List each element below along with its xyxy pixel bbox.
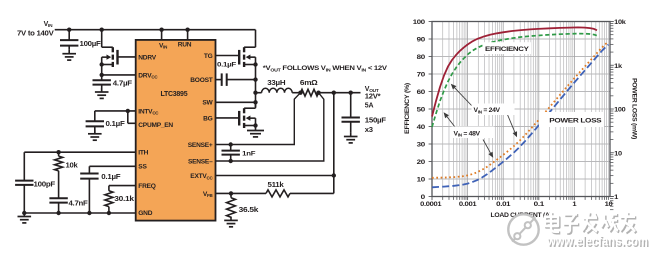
svg-text:100: 100: [614, 107, 626, 114]
resistor R1 10k: [55, 152, 78, 198]
ground under R5: [224, 217, 238, 227]
junction GND rail / ground: [22, 211, 26, 215]
svg-text:EFFICIENCY (%): EFFICIENCY (%): [404, 83, 411, 134]
svg-text:0.1µF: 0.1µF: [101, 174, 121, 181]
ground on GND rail: [18, 213, 32, 223]
chart label EFFICIENCY: [483, 42, 532, 54]
capacitor C7 0.1uF boost: [216, 62, 256, 86]
svg-text:6mΩ: 6mΩ: [300, 80, 318, 87]
junction VIN rail / C1: [67, 28, 71, 32]
curve efficiency VIN=24V (red solid): [432, 27, 597, 116]
svg-text:0.1µF: 0.1µF: [106, 121, 126, 128]
svg-text:RUN: RUN: [178, 42, 192, 49]
capacitor C1 100uF: [60, 30, 102, 50]
junction VFB / R4 / R5: [229, 191, 233, 195]
svg-text:0.0001: 0.0001: [420, 201, 442, 208]
junction GND rail / R2: [107, 211, 111, 215]
svg-text:LTC3895: LTC3895: [160, 91, 187, 98]
svg-text:0.01: 0.01: [496, 201, 511, 208]
curve power loss VIN=48V (orange dotted): [432, 42, 609, 178]
svg-text:40: 40: [417, 124, 426, 131]
svg-text:1: 1: [614, 194, 618, 201]
ground under C2: [95, 88, 109, 98]
junction SENSE- / C8: [229, 159, 233, 163]
junction VIN rail / RUN pin: [185, 28, 189, 32]
wire DRVCC: [102, 74, 136, 76]
svg-text:FREQ: FREQ: [138, 183, 155, 190]
transistor Q3 bottom switch: [239, 102, 258, 128]
wire NDRV gate: [118, 56, 136, 58]
chart leader arrows: [444, 84, 517, 158]
capacitor C3 0.1uF (INTVCC): [86, 111, 126, 134]
capacitor C5 100pF: [15, 152, 56, 213]
resistor R3 6m ohm sense: [300, 80, 319, 96]
svg-text:0.1: 0.1: [534, 201, 545, 208]
svg-text:VIN = 48V: VIN = 48V: [454, 130, 481, 137]
junction R3 right / SENSE- tap: [316, 91, 320, 95]
chart axis ticks: [429, 22, 614, 228]
junction VIN rail / VIN pin: [159, 28, 163, 32]
svg-text:EFFICIENCY: EFFICIENCY: [485, 46, 529, 53]
svg-text:12V*: 12V*: [365, 93, 381, 100]
wire INTVCC: [95, 111, 136, 123]
svg-text:30.1k: 30.1k: [114, 196, 134, 203]
junction SW column / boost cap: [253, 77, 257, 81]
wire RUN pin drop: [187, 30, 189, 40]
svg-text:1: 1: [572, 201, 576, 208]
svg-text:5A: 5A: [365, 103, 374, 110]
svg-text:BOOST: BOOST: [190, 77, 212, 84]
svg-text:BG: BG: [203, 115, 213, 122]
svg-text:x3: x3: [365, 127, 373, 134]
svg-text:SENSE+: SENSE+: [188, 142, 213, 149]
capacitor C6 0.1uF (SS): [80, 166, 121, 213]
junction EXTVCC / 511k column: [332, 173, 336, 177]
node VIN supply label: [17, 21, 54, 38]
svg-text:SS: SS: [138, 164, 147, 171]
ground under C3: [88, 130, 102, 140]
resistor R2 30.1k: [105, 186, 134, 213]
junction VOUT / COUT: [349, 91, 353, 95]
chart frame: [432, 22, 610, 197]
svg-text:511k: 511k: [268, 182, 284, 189]
svg-text:www.elecfans.com: www.elecfans.com: [546, 234, 648, 249]
junction INTVCC / CPUMP_EN: [126, 109, 130, 113]
wire SS: [89, 165, 135, 167]
wire VIN top rail: [55, 29, 256, 31]
svg-text:60: 60: [417, 89, 426, 96]
junction ITH / R1: [56, 150, 60, 154]
svg-text:SW: SW: [202, 100, 213, 107]
svg-text:90: 90: [417, 37, 426, 44]
svg-text:10: 10: [605, 201, 613, 208]
svg-text:TG: TG: [204, 53, 213, 60]
ground under C1: [62, 50, 76, 60]
watermark logo circle: [508, 214, 538, 244]
chart axis labels: [404, 19, 637, 219]
svg-text:10: 10: [417, 177, 426, 184]
chart label VIN=24V: [472, 104, 515, 116]
wire SW node column: [255, 65, 257, 108]
svg-text:VIN = 24V: VIN = 24V: [474, 107, 501, 114]
svg-text:70: 70: [417, 72, 426, 79]
svg-text:0.001: 0.001: [459, 201, 477, 208]
svg-text:4.7nF: 4.7nF: [69, 200, 89, 207]
U1 pin labels: [138, 42, 213, 217]
watermark CJK text (电子发烧友): [545, 212, 636, 233]
capacitor C4 4.7nF: [49, 198, 88, 213]
wire TG gate: [216, 55, 240, 57]
svg-text:10: 10: [614, 150, 622, 157]
junction GND rail / C4: [56, 211, 60, 215]
junction SW column / L1: [253, 91, 257, 95]
transistor Q2 top switch: [239, 30, 258, 67]
wire SW pin: [216, 101, 256, 103]
junction SW column / SW pin: [253, 100, 257, 104]
wire bottom GND rail: [24, 212, 135, 214]
junction DRVCC / C2: [100, 73, 104, 77]
svg-text:GND: GND: [138, 210, 152, 217]
wire EXTVCC: [216, 93, 334, 194]
svg-text:*VOUT FOLLOWS VIN WHEN VIN < 1: *VOUT FOLLOWS VIN WHEN VIN < 12V: [263, 65, 388, 72]
svg-text:1k: 1k: [614, 63, 622, 70]
capacitor C9 150uF x3: [342, 93, 387, 134]
wire VOUT line: [319, 92, 361, 94]
svg-text:SENSE–: SENSE–: [188, 158, 213, 165]
chart label VIN=48V: [452, 127, 495, 139]
junction GND rail / C6: [87, 211, 91, 215]
resistor R5 36.5k: [227, 193, 259, 217]
wire SENSE-: [216, 93, 324, 161]
svg-text:1nF: 1nF: [242, 150, 255, 157]
svg-text:0.1µF: 0.1µF: [217, 62, 236, 69]
IC U1 LTC3895: [136, 40, 216, 221]
svg-text:100pF: 100pF: [34, 182, 57, 189]
svg-text:100: 100: [413, 19, 426, 26]
svg-text:10k: 10k: [614, 19, 626, 26]
capacitor C8 1nF: [222, 145, 256, 162]
svg-text:4.7µF: 4.7µF: [113, 80, 133, 87]
svg-text:10k: 10k: [66, 162, 78, 169]
svg-text:36.5k: 36.5k: [239, 207, 259, 214]
wire VIN pin drop: [161, 30, 163, 40]
svg-text:POWER LOSS (mW): POWER LOSS (mW): [630, 78, 637, 139]
junction SENSE+ / C8: [229, 142, 233, 146]
svg-text:POWER LOSS: POWER LOSS: [549, 117, 602, 124]
svg-text:80: 80: [417, 54, 426, 61]
svg-text:50: 50: [417, 107, 426, 114]
curve power loss VIN=24V (blue dashed): [432, 45, 609, 188]
wire FREQ: [109, 185, 136, 187]
chart grid: [432, 22, 610, 197]
svg-text:ITH: ITH: [138, 150, 148, 157]
svg-text:7V to 140V: 7V to 140V: [17, 31, 54, 38]
svg-text:NDRV: NDRV: [138, 54, 156, 61]
transistor Q1 NDRV pass FET: [100, 30, 118, 75]
svg-text:CPUMP_EN: CPUMP_EN: [138, 122, 173, 129]
ground under Q3: [247, 126, 264, 137]
wire VFB: [216, 192, 267, 194]
wire ITH: [24, 151, 135, 153]
svg-text:100µF: 100µF: [80, 41, 102, 48]
svg-text:150µF: 150µF: [365, 118, 387, 125]
inductor L1 33uH: [256, 80, 301, 93]
svg-text:33µH: 33µH: [267, 80, 285, 87]
junction VIN rail / Q1 drain: [100, 28, 104, 32]
chart label POWER LOSS: [539, 112, 604, 127]
capacitor C2 4.7uF: [93, 75, 133, 92]
svg-text:20: 20: [417, 159, 426, 166]
svg-text:30: 30: [417, 142, 426, 149]
resistor R4 511k: [266, 182, 334, 197]
node VOUT output label: [365, 86, 381, 110]
junction R3 left / SENSE+ tap: [298, 91, 302, 95]
curve efficiency VIN=48V (green dashed): [432, 34, 597, 127]
ground under C9: [344, 133, 358, 143]
junction VOUT / EXTVCC: [332, 91, 336, 95]
wire SENSE+: [216, 93, 301, 145]
wire BG gate: [216, 117, 240, 119]
